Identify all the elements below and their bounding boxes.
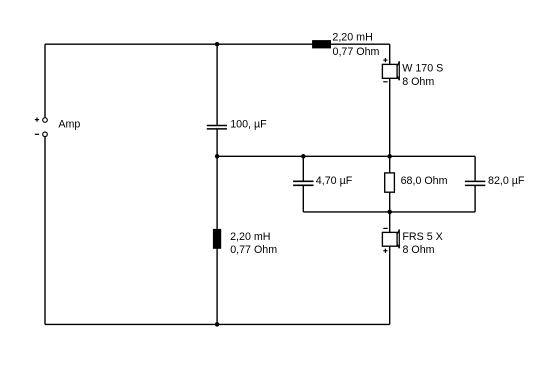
capacitor C2 4,70 µF bbox=[293, 181, 313, 185]
speaker U1 plus sign bbox=[383, 58, 387, 62]
svg-text:2,20 mH: 2,20 mH bbox=[332, 32, 372, 44]
capacitor C3 82,0 µF bbox=[465, 181, 485, 185]
svg-text:100, µF: 100, µF bbox=[230, 119, 267, 131]
svg-text:Amp: Amp bbox=[58, 118, 80, 130]
wire from speaker W minus down to middle rail bbox=[389, 78, 391, 156]
wire bottom rail bbox=[45, 323, 390, 325]
speaker U1 W 170 S bbox=[382, 61, 399, 80]
wire R1 branch bottom bbox=[389, 192, 391, 212]
wire middle vertical from middle junction through L2 to bottom rail bbox=[216, 156, 218, 324]
wire C3 branch top bbox=[474, 156, 476, 181]
inductor L2 2,20 mH bbox=[213, 229, 221, 249]
speaker U2 plus sign bbox=[383, 249, 387, 253]
wire bottom rail of parallel network bbox=[303, 211, 475, 213]
node junction middle rail at C2 branch bbox=[301, 154, 306, 159]
node junction top bbox=[215, 42, 220, 47]
wire C3 branch bottom bbox=[474, 186, 476, 212]
amp plus terminal bbox=[43, 118, 48, 123]
svg-text:W 170 S: W 170 S bbox=[402, 63, 443, 75]
speaker U1 minus sign bbox=[383, 81, 387, 83]
node junction middle bbox=[215, 154, 220, 159]
wire C2 branch bottom bbox=[302, 186, 304, 212]
amp minus sign bbox=[35, 133, 39, 135]
wire top rail from amp plus to tweeter branch corner bbox=[45, 43, 390, 45]
svg-text:0,77 Ohm: 0,77 Ohm bbox=[230, 244, 277, 256]
svg-text:8 Ohm: 8 Ohm bbox=[402, 76, 434, 88]
capacitor C1 100 µF bbox=[207, 126, 227, 129]
wire from bottom rail down to speaker FRS minus terminal bbox=[389, 212, 391, 233]
wire R1 branch top bbox=[389, 156, 391, 173]
resistor R1 68,0 Ohm bbox=[385, 173, 395, 192]
wire left vertical from amp minus down to bottom rail bbox=[44, 137, 46, 325]
inductor L1 2,20 mH bbox=[312, 40, 331, 48]
wire from capacitor C1 down to middle junction bbox=[216, 130, 218, 157]
wire from top rail down to speaker W plus terminal bbox=[389, 44, 391, 64]
speaker U2 FRS 5 X bbox=[382, 230, 399, 249]
svg-text:2,20 mH: 2,20 mH bbox=[230, 231, 270, 243]
svg-text:4,70 µF: 4,70 µF bbox=[316, 175, 353, 187]
node junction bottom rail to FRS bbox=[387, 210, 392, 215]
wire C2 branch top bbox=[302, 156, 304, 180]
wire from speaker FRS plus down to bottom rail corner bbox=[389, 246, 391, 324]
amp minus terminal bbox=[43, 132, 48, 137]
svg-text:FRS 5 X: FRS 5 X bbox=[402, 231, 442, 243]
wire middle vertical from top junction to capacitor C1 bbox=[216, 44, 218, 125]
node junction middle rail at R1 branch bbox=[387, 154, 392, 159]
speaker U2 minus sign bbox=[383, 227, 387, 229]
node junction bottom bbox=[215, 322, 220, 327]
svg-text:82,0 µF: 82,0 µF bbox=[488, 175, 525, 187]
wire left vertical from top rail to amp plus terminal bbox=[44, 44, 46, 117]
svg-text:68,0 Ohm: 68,0 Ohm bbox=[401, 175, 448, 187]
svg-text:0,77 Ohm: 0,77 Ohm bbox=[333, 46, 380, 58]
wire middle rail horizontal bbox=[217, 155, 475, 157]
svg-text:8 Ohm: 8 Ohm bbox=[403, 244, 435, 256]
amp plus sign bbox=[35, 118, 39, 122]
